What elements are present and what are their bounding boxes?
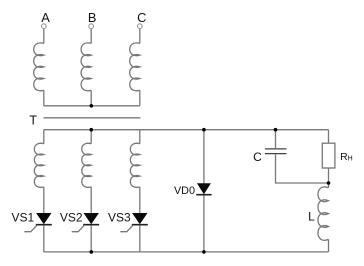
svg-text:L: L (308, 210, 315, 224)
svg-text:VS1: VS1 (12, 210, 35, 224)
svg-text:VD0: VD0 (174, 185, 195, 197)
svg-text:T: T (29, 113, 37, 127)
svg-text:VS3: VS3 (108, 210, 131, 224)
svg-text:C: C (137, 10, 146, 25)
svg-text:A: A (41, 10, 50, 25)
svg-text:VS2: VS2 (60, 210, 83, 224)
svg-text:RH: RH (340, 152, 353, 163)
svg-text:B: B (88, 10, 97, 25)
svg-text:C: C (253, 150, 262, 164)
